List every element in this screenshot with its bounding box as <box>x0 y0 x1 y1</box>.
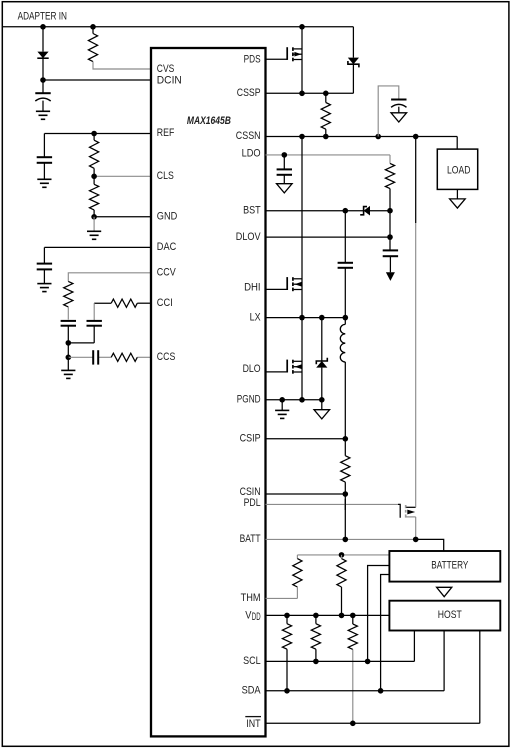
wire Q1 drain-source line <box>301 27 303 94</box>
capacitor C7 (input bypass) <box>391 100 406 113</box>
pin label LDO <box>242 148 261 160</box>
svg-text:DCIN: DCIN <box>157 75 182 87</box>
ground comp (earth) <box>61 357 75 378</box>
svg-text:ADAPTER IN: ADAPTER IN <box>18 10 67 22</box>
pin label CSIN <box>240 486 261 498</box>
wire DLOV node vertical <box>389 211 391 237</box>
wire BATT <box>266 539 444 551</box>
capacitor C1 (DCIN bypass) <box>35 80 50 111</box>
junction VDD/R11 <box>339 613 345 619</box>
resistor R11 (BATT to VDD) <box>337 555 346 616</box>
junction DCIN/C1 <box>40 77 46 83</box>
svg-text:BATTERY: BATTERY <box>431 559 468 571</box>
wire REF <box>44 133 151 135</box>
wire CSIP <box>266 438 346 440</box>
wire DAC <box>44 246 151 248</box>
svg-text:CCV: CCV <box>157 267 176 279</box>
junction INT/R14 <box>350 721 356 727</box>
pin label VDD <box>245 609 260 623</box>
wire CCV <box>68 273 151 282</box>
junction CSSP/Rs1 <box>323 91 329 97</box>
resistor R10 (thermistor pullup) <box>293 555 302 599</box>
diode D3 (freewheel schottky) <box>316 318 327 400</box>
BATTERY box <box>389 551 500 582</box>
svg-text:SCL: SCL <box>243 655 261 667</box>
diode D1 (adapter schottky) <box>348 27 359 94</box>
resistor R2 (REF-CLS divider upper) <box>90 134 99 177</box>
svg-text:HOST: HOST <box>438 609 462 621</box>
wire Q3 drain-source line (LX to PGND) <box>301 318 303 400</box>
svg-text:BST: BST <box>243 204 261 216</box>
transistor Q3 body <box>293 360 302 374</box>
pin label CVS <box>157 63 175 75</box>
capacitor C5 (CCI comp) <box>87 303 102 343</box>
pin label PGND <box>237 393 261 405</box>
junction SCL/R12 <box>313 659 319 665</box>
svg-text:DLOV: DLOV <box>236 231 261 243</box>
resistor R1 (CVS) <box>88 27 151 69</box>
junction CSIN <box>343 491 349 497</box>
resistor R14 (INT pullup) <box>348 615 357 723</box>
junction comp node B <box>66 355 72 361</box>
op-amp U1 MAX1645B box <box>151 48 266 736</box>
wire Q2 drain-source line (CSSN to LX) <box>301 137 303 318</box>
pin label PDS <box>244 54 261 66</box>
junction D2 anode node <box>387 208 393 214</box>
capacitor C10 (DLOV bypass) <box>383 237 398 272</box>
svg-text:INT: INT <box>246 718 260 730</box>
svg-text:LOAD: LOAD <box>447 164 471 176</box>
junction LX/D3 <box>319 315 325 321</box>
HOST box <box>389 601 500 631</box>
wire PDL <box>266 503 399 505</box>
transistor Q1 (adapter PFET) gate <box>266 47 288 60</box>
wire Q4 source to BATT <box>415 517 417 540</box>
pin label SDA <box>242 685 261 697</box>
junction VDD/R12 <box>313 613 319 619</box>
pin label SCL <box>243 655 261 667</box>
junction adapter/diode <box>40 24 46 30</box>
pin label DLOV <box>236 231 261 243</box>
pin label BATT <box>240 533 261 545</box>
junction GND <box>91 214 97 220</box>
capacitor C6 (CCS comp) <box>93 350 98 364</box>
pin label CCI <box>157 297 173 309</box>
junction VDD/R14 <box>350 613 356 619</box>
junction adapter/Q1 drain <box>299 24 305 30</box>
junction BATT/Q4 <box>413 537 419 543</box>
svg-text:MAX1645B: MAX1645B <box>187 115 231 127</box>
wire THM <box>266 597 298 599</box>
junction SDA/BATTERY <box>378 688 384 694</box>
wire LDO <box>266 154 391 156</box>
pin label DCIN <box>157 75 182 87</box>
wire DLOV <box>266 236 391 238</box>
junction SDA/R13 <box>284 688 290 694</box>
svg-text:DHI: DHI <box>244 281 261 293</box>
svg-text:CVS: CVS <box>157 63 175 75</box>
pin label CSSN <box>236 130 261 142</box>
wire VDD <box>266 614 390 616</box>
junction BST/C9 <box>343 208 349 214</box>
wire CSIN-BATT crossing overdraw <box>344 499 346 510</box>
junction CSSP/Q1 <box>299 91 305 97</box>
svg-text:LDO: LDO <box>242 148 261 160</box>
pin label PDL <box>244 497 261 509</box>
capacitor C8 (LDO bypass) <box>277 155 292 184</box>
wire LX <box>266 317 346 319</box>
wire CCI <box>94 302 151 304</box>
ground C1 (earth) <box>36 111 50 119</box>
wire GND <box>94 216 151 218</box>
wire CLS <box>94 175 151 177</box>
junction DLOV <box>387 234 393 240</box>
LOAD box <box>437 149 477 189</box>
wire battery plus rail <box>297 554 389 556</box>
pin label BST <box>243 204 261 216</box>
wire adapter-in bus <box>3 26 353 28</box>
wire SCL <box>266 631 415 662</box>
wire comp common <box>68 343 94 357</box>
transistor Q4 (PDL PFET) <box>398 504 416 517</box>
svg-text:LX: LX <box>250 311 261 323</box>
capacitor C9 (BST flying) <box>338 211 353 318</box>
junction PGND/Q3 <box>299 397 305 403</box>
svg-text:CLS: CLS <box>157 170 174 182</box>
wire C7 branch <box>378 86 399 137</box>
ground C8 (triangle) <box>277 184 293 193</box>
svg-text:PDS: PDS <box>244 54 261 66</box>
pin label LX <box>250 311 261 323</box>
junction CSSN/Q2 drain <box>299 134 305 140</box>
capacitor C3 (DAC filter) <box>37 247 52 283</box>
wire Q4 channel gray <box>415 223 417 507</box>
pin label CSIP <box>240 432 261 444</box>
pin label INT (active low) <box>245 717 261 730</box>
wire SDA <box>266 631 445 691</box>
pin label GND <box>157 210 178 222</box>
ground PGND (triangle) <box>314 400 330 419</box>
transistor Q2 body <box>293 277 302 291</box>
pin label DAC <box>157 241 177 253</box>
svg-text:DD: DD <box>252 611 261 623</box>
junction adapter/CVS resistor <box>90 24 96 30</box>
pin label DLO <box>243 363 261 375</box>
pin label REF <box>157 127 175 139</box>
inductor L1 <box>340 318 345 439</box>
U1 part label MAX1645B <box>187 115 231 127</box>
junction VDD/R13 <box>284 613 290 619</box>
svg-text:GND: GND <box>157 210 178 222</box>
ground LOAD (triangle) <box>450 189 466 208</box>
svg-text:CSIP: CSIP <box>240 432 261 444</box>
junction CSSN/Rs1 <box>323 134 329 140</box>
resistor R5 (CCI comp) <box>111 299 137 307</box>
junction LX/Q2 <box>299 315 305 321</box>
wire DCIN <box>43 79 151 81</box>
resistor R7 (charge current sense) <box>321 93 330 136</box>
pin label CCV <box>157 267 176 279</box>
svg-text:CCS: CCS <box>157 351 176 363</box>
pin label THM <box>241 592 261 604</box>
ground C3 (earth) <box>37 284 51 292</box>
svg-text:BATT: BATT <box>240 533 261 545</box>
svg-text:DAC: DAC <box>157 241 177 253</box>
ground GND pin (earth) <box>87 217 101 240</box>
capacitor C4 (CCV comp) <box>61 321 76 343</box>
wire BATTERY SDA <box>381 575 390 691</box>
svg-text:CSSN: CSSN <box>236 130 261 142</box>
wire CSIN <box>266 493 346 495</box>
resistor R9 (battery current sense) <box>341 439 350 494</box>
diode D4 (adapter input) <box>37 27 48 80</box>
junction LDO/C8 <box>282 152 288 158</box>
ground C7 (triangle) <box>391 113 407 122</box>
wire CSSP <box>266 92 354 94</box>
wire BST <box>266 210 364 212</box>
junction LX/L1 <box>343 315 349 321</box>
ground PGND (earth) <box>275 400 289 419</box>
svg-text:DLO: DLO <box>243 363 261 375</box>
svg-text:CCI: CCI <box>157 297 173 309</box>
svg-text:THM: THM <box>241 592 261 604</box>
wire CSSN <box>266 137 458 150</box>
junction REF/divider <box>91 131 97 137</box>
svg-text:PDL: PDL <box>244 497 261 509</box>
wire INT <box>266 631 480 724</box>
node ADAPTER IN label <box>18 10 67 22</box>
svg-text:SDA: SDA <box>242 685 261 697</box>
pin label CSSP <box>237 87 261 99</box>
resistor R8 (LDO-DLOV) <box>385 155 394 211</box>
resistor R12 (SCL pullup) <box>311 615 320 661</box>
svg-text:PGND: PGND <box>237 393 261 405</box>
ground BATTERY (triangle) <box>437 587 452 596</box>
svg-text:CSIN: CSIN <box>240 486 261 498</box>
wire CCS <box>68 356 151 358</box>
svg-text:CSSP: CSSP <box>237 87 261 99</box>
diode D2 (BST schottky) <box>360 206 390 216</box>
ground C10 (arrow to PGND) <box>386 272 395 281</box>
pin label CLS <box>157 170 174 182</box>
ground C2 (earth) <box>37 179 51 187</box>
transistor Q1 body <box>293 47 302 61</box>
pin label CCS <box>157 351 176 363</box>
wire Q4 channel upper (CSSN) <box>415 137 417 224</box>
junction CSSN/C7 <box>375 134 381 140</box>
pin label DHI <box>244 281 261 293</box>
wire BATTERY SCL <box>368 566 390 662</box>
junction PGND/D3 <box>319 397 325 403</box>
resistor R13 (SDA pullup) <box>282 615 291 690</box>
junction CSIP <box>343 436 349 442</box>
junction CSSN/Q4 <box>413 134 419 140</box>
junction SCL/BATTERY <box>365 659 371 665</box>
transistor Q2 (high-side NFET) gate <box>266 277 288 290</box>
svg-text:REF: REF <box>157 127 175 139</box>
resistor R3 (REF-CLS divider lower) <box>90 176 99 217</box>
junction battery rail/R11 <box>339 552 345 558</box>
junction CLS <box>91 174 97 180</box>
junction comp node A <box>66 340 72 346</box>
capacitor C2 (REF bypass) <box>37 134 52 180</box>
resistor R6 (CCS comp) <box>111 353 137 361</box>
transistor Q3 (low-side NFET) gate <box>266 360 288 373</box>
wire CSIN to BATT <box>344 494 346 539</box>
junction BATT/CSIN chain <box>343 537 349 543</box>
wire PGND <box>266 399 322 401</box>
junction PGND/earth <box>279 397 285 403</box>
resistor R4 (CCV comp) <box>64 281 73 319</box>
